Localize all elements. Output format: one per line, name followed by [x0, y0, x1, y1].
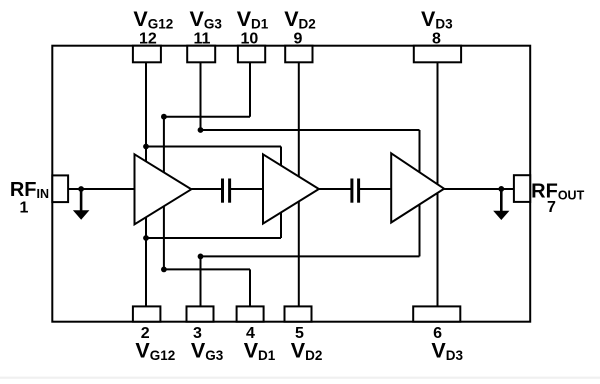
- svg-text:10: 10: [241, 30, 259, 47]
- svg-text:9: 9: [293, 30, 302, 47]
- svg-text:1: 1: [20, 199, 29, 216]
- svg-text:11: 11: [194, 30, 211, 47]
- svg-text:7: 7: [547, 199, 556, 216]
- svg-text:8: 8: [432, 30, 441, 47]
- svg-text:12: 12: [139, 30, 157, 47]
